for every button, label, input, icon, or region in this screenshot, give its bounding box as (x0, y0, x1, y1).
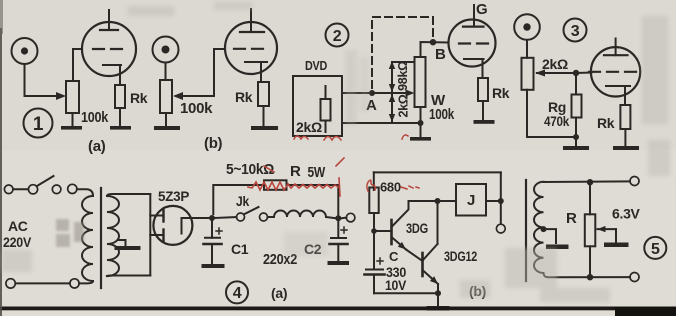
svg-text:6.3V: 6.3V (612, 206, 641, 222)
svg-text:G: G (476, 1, 487, 18)
svg-text:(a): (a) (271, 285, 287, 301)
svg-text:Jk: Jk (236, 193, 249, 209)
potentiometer 100k (b) (160, 80, 172, 113)
resistor 680 (369, 188, 378, 214)
transformer T1 primary winding (82, 196, 93, 281)
wire jack to pot (526, 40, 528, 58)
wire DVD top output to wiper (342, 92, 411, 94)
svg-text:100k: 100k (180, 100, 213, 117)
winding (534, 182, 544, 273)
switch blade (37, 176, 54, 186)
node junction (573, 70, 579, 76)
ground (61, 126, 82, 130)
wire pot top to grid (421, 42, 449, 57)
pot R (589, 182, 591, 214)
svg-text:Rk: Rk (492, 85, 510, 101)
svg-text:C: C (389, 249, 399, 264)
ground (613, 146, 639, 150)
potentiometer 100k (a) (66, 81, 79, 113)
relay J (456, 184, 486, 216)
collector rail to relay (409, 200, 457, 202)
circled 4 (226, 281, 248, 303)
resistor Rg 470k (572, 95, 582, 118)
svg-text:98kΩ: 98kΩ (396, 61, 410, 91)
svg-text:10V: 10V (385, 277, 407, 293)
svg-text:2kΩ: 2kΩ (397, 94, 411, 117)
terminal (68, 184, 77, 193)
resistor R 5W branch (213, 185, 264, 214)
emitter node + ground (435, 290, 441, 296)
ground (410, 137, 431, 141)
triode G (449, 1, 496, 78)
wiper to ground (597, 226, 605, 232)
wire pot bottom to node (527, 90, 576, 137)
red pen resistor zigzag (248, 158, 344, 196)
potentiometer 2k (522, 58, 534, 90)
svg-text:4: 4 (233, 285, 242, 302)
svg-text:5~10kΩ: 5~10kΩ (226, 161, 274, 178)
svg-text:R: R (290, 163, 301, 180)
filter cap C2 (337, 218, 339, 238)
svg-text:J: J (467, 192, 475, 209)
input jack (a) (12, 38, 38, 64)
svg-text:3DG: 3DG (406, 220, 428, 236)
input jack (b) (153, 37, 179, 63)
svg-text:1: 1 (33, 114, 44, 135)
dimension line 98k/2k (391, 62, 393, 121)
ground (110, 126, 131, 130)
circled 2 (326, 24, 349, 47)
circled 1 (24, 109, 53, 138)
wiper wire from node (537, 72, 576, 74)
switch contact (52, 185, 61, 194)
wire jack to pot (165, 63, 167, 80)
bottom lead (544, 273, 631, 277)
transformer T1 secondary winding (107, 196, 119, 276)
svg-text:B: B (435, 46, 446, 63)
potentiometer W 100k (415, 57, 426, 107)
AC input terminal bottom-left (6, 279, 15, 288)
terminal (70, 279, 79, 288)
AC input terminal top-left (4, 185, 13, 194)
node (335, 215, 341, 221)
dashed feedback path A to B (372, 17, 433, 88)
node base Q1 (371, 228, 377, 234)
wiper wire from grid (176, 49, 225, 96)
red annotation arcs under DVD box (294, 135, 408, 140)
output terminal (496, 224, 505, 233)
wire pot to ground (165, 113, 167, 127)
transformer T1 core (100, 188, 102, 288)
svg-text:C1: C1 (231, 241, 249, 257)
svg-text:Rg: Rg (548, 99, 566, 115)
node A (369, 90, 375, 96)
wire pot bottom to ground (420, 107, 422, 137)
top lead (544, 180, 631, 183)
triode V1a (73, 10, 136, 85)
resistor Rk (a) (115, 85, 125, 108)
node B (430, 39, 436, 45)
filter cap C1 (211, 218, 213, 238)
ground (563, 146, 589, 150)
svg-text:100k: 100k (429, 106, 455, 123)
svg-text:470k: 470k (544, 114, 570, 129)
circled 5 (644, 237, 666, 259)
core (525, 180, 527, 281)
svg-text:R: R (566, 210, 577, 227)
resistor Rk (2) (478, 78, 488, 101)
output rail (500, 172, 502, 224)
wire pot to ground (72, 113, 74, 127)
svg-text:3DG12: 3DG12 (444, 248, 477, 264)
svg-text:(b): (b) (204, 135, 223, 152)
svg-text:AC: AC (8, 218, 28, 234)
output terminal (342, 217, 347, 220)
svg-text:220V: 220V (3, 234, 32, 250)
transistor Q2 3DG12 (423, 201, 439, 293)
wire jack to wiper (25, 65, 59, 97)
triode V3 (589, 39, 640, 106)
svg-text:100k: 100k (81, 109, 109, 126)
secondary centre tap to ground (119, 240, 126, 246)
wire node to grid (576, 72, 592, 75)
choke L (274, 211, 326, 217)
svg-text:DVD: DVD (305, 59, 327, 73)
internal resistor 2k (321, 99, 331, 121)
supply rail (374, 171, 501, 173)
svg-text:2: 2 (333, 28, 342, 45)
wire DVD bottom output (342, 122, 421, 124)
svg-text:5Z3P: 5Z3P (158, 188, 189, 204)
wire to primary bottom (79, 281, 93, 283)
circled 3 (564, 19, 587, 42)
capacitor C 330/10V (373, 231, 375, 270)
wire to primary (77, 189, 93, 196)
triode V1b (225, 9, 277, 82)
wire (13, 188, 28, 190)
svg-text:Rk: Rk (235, 89, 253, 105)
page bottom rule (0, 307, 676, 311)
ground (154, 126, 180, 130)
svg-text:5W: 5W (308, 164, 326, 181)
resistor Rk (3) (620, 105, 630, 129)
wire node to Rg (575, 73, 577, 95)
svg-text:680: 680 (380, 180, 401, 195)
input jack (3) (514, 14, 540, 40)
svg-text:2kΩ: 2kΩ (542, 56, 568, 72)
svg-text:(a): (a) (88, 138, 106, 155)
page left edge (0, 28, 2, 316)
more sections appended here (293, 1, 510, 141)
transistor Q1 3DG (392, 201, 423, 261)
svg-text:Rk: Rk (597, 115, 615, 131)
secondary leads (107, 194, 150, 196)
ground (251, 126, 278, 130)
node (209, 215, 215, 221)
winding centre tap (541, 226, 547, 232)
resistor Rk (b) (258, 82, 269, 106)
svg-text:5: 5 (651, 241, 660, 258)
wire (15, 282, 70, 284)
switch pole (28, 185, 37, 194)
svg-text:Rk: Rk (130, 90, 148, 106)
red label 680 (367, 180, 419, 195)
ground (474, 120, 495, 124)
svg-text:2kΩ: 2kΩ (296, 119, 322, 135)
DVD source box (293, 76, 342, 136)
svg-text:3: 3 (571, 23, 580, 40)
